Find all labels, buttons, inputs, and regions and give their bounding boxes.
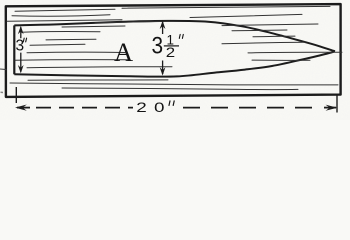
svg-text:2: 2 <box>166 46 175 61</box>
svg-text:A: A <box>114 37 133 67</box>
dimension line 3 1/2 inch (middle), vertical <box>162 22 164 74</box>
wood grain lines bottom gap <box>10 80 338 90</box>
board outline (outer rectangle) <box>6 4 341 97</box>
pattern A outline: bottom edge <box>14 51 335 76</box>
svg-text:3: 3 <box>16 37 25 54</box>
extension line right (for 20 inch) <box>336 96 338 113</box>
pattern A outline: left edge <box>13 25 15 74</box>
wood grain lines right of tip <box>252 59 310 61</box>
svg-text:3: 3 <box>152 32 164 59</box>
arrowhead up (3 inch) <box>18 26 24 34</box>
label 3 1/2 inch: inch marks <box>179 34 183 38</box>
svg-text:20: 20 <box>136 99 172 115</box>
label 3 1/2 inch: fraction bar <box>164 45 179 47</box>
pattern A outline: top edge <box>14 21 335 51</box>
arrowhead left (20 inch) <box>15 105 27 111</box>
wood grain lines top gap <box>7 6 330 21</box>
scan smudge left edge <box>1 92 4 94</box>
dimension line 3 inch (left), vertical with gap for label <box>20 27 22 72</box>
extension line left (for 20 inch) <box>15 87 17 103</box>
arrowhead up (3 1/2 inch) <box>160 21 166 29</box>
arrowhead down (3 1/2 inch) <box>160 67 166 75</box>
arrowhead right (20 inch) <box>326 105 338 111</box>
wood grain lines inside pattern <box>15 22 342 68</box>
arrowhead down (3 inch) <box>18 65 24 73</box>
dimension line 20 inch, dashed horizontal <box>17 107 30 109</box>
